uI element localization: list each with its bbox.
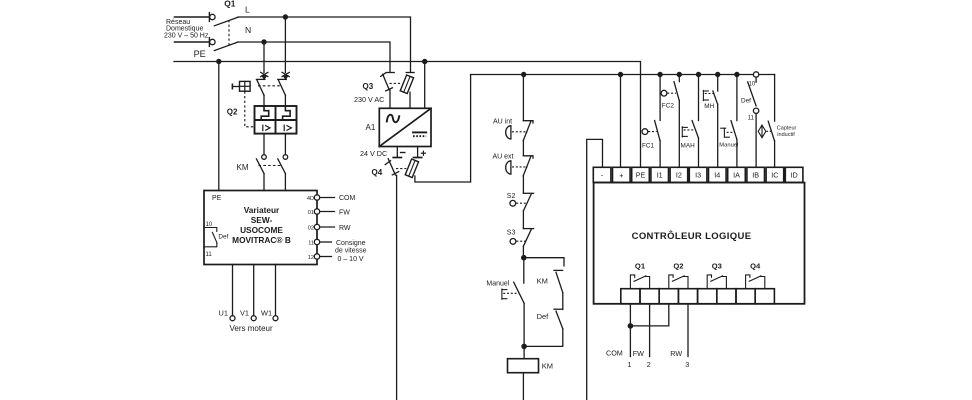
node branch bottom — [521, 344, 527, 350]
plug-in arrow pole 1 — [261, 72, 268, 80]
wire Def to IB — [755, 114, 757, 168]
junction PE to A1 — [422, 59, 427, 64]
svg-text:N: N — [245, 25, 251, 35]
wire PE drop to variateur — [218, 62, 220, 191]
junction PE to variateur — [216, 59, 221, 64]
breaker Q2 thermal element pole 1 — [261, 106, 269, 120]
proximity sensor switch on IC — [768, 75, 774, 168]
fuse Q3 pole 2 — [400, 73, 414, 109]
variateur fault contact Def — [205, 228, 217, 247]
wire L lead-in — [175, 16, 209, 18]
svg-text:Q3: Q3 — [712, 261, 722, 270]
svg-text:IA: IA — [733, 171, 740, 180]
output labels — [606, 349, 689, 369]
contact Def on IB — [748, 77, 756, 106]
controller input terminal labels — [601, 171, 798, 181]
wire L drop to Q2 pole 2 — [284, 17, 286, 73]
wire plus terminal — [620, 75, 622, 168]
relay output Q2 contact — [669, 275, 688, 289]
breaker Q2 magnetic I> pole 1 — [263, 125, 270, 130]
switch MAH actuator — [682, 127, 695, 137]
svg-text:MAH: MAH — [681, 142, 696, 149]
auxiliary contact KM — [554, 270, 563, 309]
svg-text:11: 11 — [748, 116, 755, 122]
controller output terminal cells — [621, 289, 775, 304]
svg-text:CONTRÔLEUR LOGIQUE: CONTRÔLEUR LOGIQUE — [632, 230, 752, 242]
wire variateur V1 output — [253, 265, 255, 316]
svg-text:Consigne: Consigne — [336, 240, 366, 247]
switch Q1 pole L blade — [214, 17, 238, 26]
svg-text:Q2: Q2 — [673, 261, 683, 270]
svg-text:inductif: inductif — [777, 132, 795, 138]
switch MH actuator — [703, 90, 714, 100]
proximity sensor symbol — [758, 125, 771, 138]
wire PE rail — [174, 62, 641, 168]
wire AU int to AU ext — [522, 141, 524, 156]
svg-text:I1: I1 — [657, 171, 663, 180]
svg-text:COM: COM — [339, 195, 356, 202]
svg-text:S3: S3 — [507, 230, 516, 237]
junction COM — [628, 323, 634, 329]
svg-text:Q1: Q1 — [224, 0, 236, 9]
svg-text:Q4: Q4 — [750, 261, 761, 270]
wire output Q2a to COM — [630, 304, 668, 326]
svg-text:Def: Def — [741, 97, 751, 104]
breaker Q2 pole 2 contact — [278, 79, 287, 106]
svg-text:I3: I3 — [695, 171, 701, 180]
junction rail to I2 — [677, 72, 682, 77]
svg-text:FW: FW — [633, 349, 644, 358]
wire output RW — [687, 304, 689, 357]
variateur U1 box — [204, 191, 317, 265]
fuse-switch Q4 dashed link — [396, 168, 406, 170]
relay output Q4 contact — [746, 275, 765, 289]
coil KM — [508, 346, 539, 400]
svg-text:KM: KM — [537, 276, 548, 285]
variateur terminal 02 — [308, 224, 335, 231]
junction rail to I1 — [657, 72, 662, 77]
wire N lead-in — [175, 41, 209, 43]
wire N line — [238, 42, 391, 72]
breaker Q2 pole 1 contact — [256, 79, 265, 106]
svg-text:3: 3 — [685, 360, 689, 369]
svg-text:PE: PE — [212, 195, 222, 202]
proximity sensor label — [777, 126, 797, 138]
breaker Q2 manual actuator handle — [232, 81, 250, 91]
breaker Q2 actuator dashed link — [245, 91, 255, 126]
wire AU ext to S2 — [522, 176, 524, 193]
svg-text:Manuel: Manuel — [486, 281, 509, 288]
wire Q2 to KM pole 2 — [284, 134, 286, 155]
svg-text:U1: U1 — [219, 308, 228, 317]
svg-text:+: + — [619, 171, 623, 180]
svg-text:AU int: AU int — [493, 119, 512, 126]
svg-text:V1: V1 — [240, 308, 249, 317]
switch MAH on I3 — [692, 75, 698, 168]
wire Q2 to KM pole 1 — [263, 134, 265, 155]
breaker Q2 body — [255, 106, 297, 134]
svg-text:0 – 10 V: 0 – 10 V — [338, 256, 364, 263]
pushbutton S3 — [510, 229, 533, 247]
wire PE into A1 — [424, 62, 426, 109]
breaker Q2 blade dashed link — [258, 85, 282, 87]
svg-text:W1: W1 — [261, 308, 272, 317]
terminal U1 — [230, 316, 235, 321]
power supply A1 DC symbol — [413, 132, 426, 136]
selector Manuel branch — [514, 258, 524, 347]
svg-text:Capteur: Capteur — [777, 126, 797, 132]
breaker Q2 thermal element pole 2 — [283, 106, 291, 120]
node branch top — [521, 255, 527, 261]
svg-text:PE: PE — [636, 171, 646, 180]
plug-in arrow pole 2 — [282, 72, 289, 80]
power supply A1 plus stub — [414, 147, 426, 158]
svg-text:230 V AC: 230 V AC — [354, 95, 384, 104]
source label Réseau Domestique 230V 50Hz — [164, 19, 209, 40]
svg-text:01: 01 — [308, 210, 314, 216]
svg-text:RW: RW — [339, 225, 351, 232]
svg-text:02: 02 — [308, 226, 314, 232]
variateur terminal 4D — [307, 195, 335, 202]
variateur name text — [232, 205, 291, 245]
svg-text:Q1: Q1 — [635, 261, 646, 270]
contactor KM dashed link — [259, 165, 281, 167]
terminal W1 — [273, 316, 278, 321]
variateur terminal 01 — [308, 209, 335, 216]
svg-text:11: 11 — [308, 241, 314, 247]
wire N drop to Q2 pole 1 — [263, 42, 265, 73]
variateur terminal external labels — [335, 195, 367, 263]
junction N to Q2 — [261, 39, 266, 44]
switch Q1 gang dashed link — [228, 20, 230, 46]
svg-text:KM: KM — [542, 361, 553, 370]
svg-text:I2: I2 — [676, 171, 682, 180]
svg-text:ID: ID — [791, 171, 798, 180]
relay output Q1 contact — [630, 275, 649, 289]
svg-text:Q4: Q4 — [372, 168, 383, 177]
svg-text:de vitesse: de vitesse — [335, 248, 367, 255]
limit switch FC1 on I1 — [642, 75, 660, 168]
junction rail to plus terminal — [618, 72, 623, 77]
wire output COM — [629, 304, 631, 357]
svg-text:IB: IB — [752, 171, 759, 180]
wire L line — [238, 17, 411, 72]
emergency stop AU ext — [506, 156, 533, 176]
terminal N source — [210, 39, 215, 44]
svg-text:12: 12 — [308, 255, 314, 261]
svg-text:FW: FW — [339, 209, 350, 216]
selector Manuel actuator — [502, 289, 519, 299]
junction L to Q2 — [283, 14, 288, 19]
controller logic box — [594, 183, 805, 304]
svg-text:S2: S2 — [507, 193, 516, 200]
svg-text:FC1: FC1 — [642, 142, 655, 149]
svg-text:10: 10 — [749, 82, 756, 88]
svg-text:Q3: Q3 — [363, 82, 374, 91]
svg-text:MH: MH — [704, 103, 714, 110]
switch Q1 pole N blade — [214, 42, 237, 50]
svg-text:AU ext: AU ext — [493, 154, 514, 161]
svg-text:FC2: FC2 — [662, 103, 675, 110]
relay output Q3 contact — [707, 275, 726, 289]
svg-text:Variateur: Variateur — [244, 205, 280, 215]
svg-text:COM: COM — [606, 349, 623, 358]
fuse-switch Q4 pole 1 — [385, 159, 399, 400]
wire variateur W1 output — [275, 265, 277, 316]
svg-text:USOCOME: USOCOME — [240, 225, 283, 235]
fuse-switch Q3 dashed link — [390, 82, 401, 84]
wire rail to AU int — [522, 75, 524, 121]
svg-text:KM: KM — [237, 163, 249, 172]
svg-text:Vers moteur: Vers moteur — [230, 324, 273, 333]
junction rail to control chain — [521, 72, 526, 77]
svg-text:1: 1 — [628, 360, 632, 369]
wire variateur U1 output — [232, 265, 234, 316]
svg-text:11: 11 — [206, 252, 213, 258]
svg-text:Q2: Q2 — [227, 107, 238, 116]
pushbutton S2 — [510, 193, 534, 211]
junction rail to I4 — [715, 72, 720, 77]
contactor KM pole 1 — [256, 155, 266, 191]
svg-text:I4: I4 — [714, 171, 720, 180]
contactor KM pole 2 — [278, 155, 288, 191]
power supply A1 AC symbol — [387, 115, 399, 123]
wire branch to KM contact — [524, 258, 564, 266]
fuse Q4 pole 2 — [405, 75, 470, 183]
power supply A1 box — [379, 108, 431, 146]
svg-text:230 V – 50 Hz: 230 V – 50 Hz — [164, 32, 209, 39]
svg-text:Def: Def — [537, 312, 550, 321]
contact Def on IB terminal 10 — [753, 72, 758, 77]
variateur terminal 11 — [308, 239, 331, 246]
svg-text:L: L — [245, 4, 250, 14]
breaker Q2 magnetic I> pole 2 — [284, 125, 291, 130]
wire S2 to S3 — [522, 211, 524, 229]
wire +24V rail — [471, 74, 775, 76]
terminal V1 — [251, 316, 256, 321]
svg-text:PE: PE — [194, 49, 206, 59]
terminal L source — [210, 14, 215, 19]
power supply A1 minus stub — [393, 147, 405, 158]
wire S3 to branch node — [522, 246, 524, 258]
wire controller 0V return — [587, 139, 603, 400]
fuse-switch Q3 pole 1 — [381, 73, 395, 109]
svg-text:4D: 4D — [307, 196, 314, 202]
svg-text:Def: Def — [218, 234, 228, 241]
controller input terminal cells — [593, 167, 803, 182]
junction rail to I3 — [696, 72, 701, 77]
variateur terminal 12 — [308, 254, 332, 261]
junction rail to IA — [734, 72, 739, 77]
motor terminal labels — [219, 308, 273, 317]
limit switch FC2 on I2 — [661, 75, 679, 168]
wire output FW — [649, 304, 651, 357]
contact Def branch — [524, 309, 563, 346]
switch Manuel on IA — [731, 75, 737, 168]
emergency stop AU int — [506, 121, 533, 141]
svg-text:SEW-: SEW- — [251, 215, 273, 225]
svg-text:Manuel: Manuel — [719, 143, 738, 149]
switch Manuel actuator — [721, 128, 734, 137]
svg-text:MOVITRAC® B: MOVITRAC® B — [232, 235, 291, 245]
svg-text:IC: IC — [771, 171, 778, 180]
svg-text:24 V DC: 24 V DC — [360, 149, 387, 158]
switch MH on I4 — [713, 75, 718, 168]
contact Def terminal 11 — [753, 108, 758, 113]
svg-text:2: 2 — [647, 360, 651, 369]
svg-text:RW: RW — [670, 349, 682, 358]
svg-text:A1: A1 — [366, 123, 376, 132]
